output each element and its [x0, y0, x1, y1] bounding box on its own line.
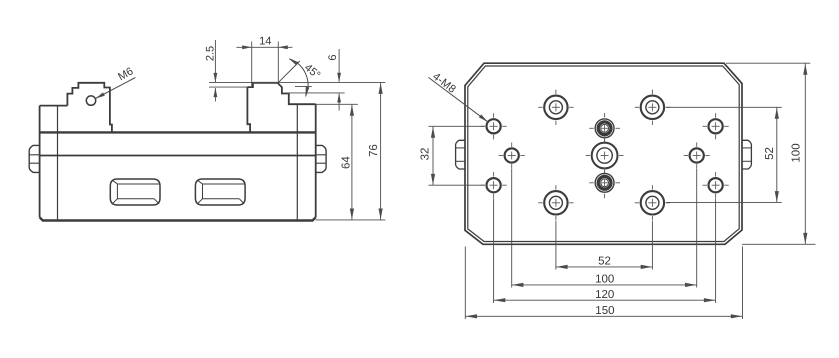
counterbored hole top-right [641, 96, 664, 119]
notch level extension line right [295, 85, 312, 87]
dimension 100 bottom [512, 284, 697, 286]
dimension 52 bottom [556, 266, 653, 268]
dimension 2.5 extension lines [209, 81, 253, 83]
dimension 100 right [804, 64, 806, 245]
counterbored hole top-left [544, 96, 567, 119]
dimension 120 bottom [494, 299, 716, 301]
front view: fixed jaw stepped profile [67, 83, 112, 133]
svg-text:4-M8: 4-M8 [430, 71, 458, 96]
leader 4-M8 [428, 77, 487, 121]
svg-text:100: 100 [790, 143, 802, 162]
angle 45 arc [289, 59, 308, 97]
top view: plate outer outline with corner chamfers [465, 63, 742, 244]
front view: movable jaw profile [247, 83, 288, 104]
M8 hole right-top [709, 119, 723, 133]
hole left-middle [505, 148, 519, 162]
dimension 52 right extension lines [666, 106, 782, 108]
top view: plate inner chamfer line [468, 66, 739, 242]
bottom dims extension lines [555, 221, 557, 270]
dimension 100 right extension lines [726, 62, 810, 64]
svg-text:14: 14 [259, 36, 271, 48]
front view: vise body outline [39, 106, 41, 218]
front view: M6 tapped hole in fixed jaw [86, 96, 95, 105]
counterbored hole bottom-left [544, 191, 567, 214]
top view: screw hex end right [742, 140, 751, 169]
extension line body bottom [316, 219, 386, 221]
svg-text:64: 64 [340, 156, 352, 169]
dimension 14 [236, 46, 292, 48]
front view: lead-screw hex end right [316, 145, 326, 172]
extension line jaw top [253, 81, 385, 83]
svg-text:2.5: 2.5 [204, 46, 216, 61]
svg-text:76: 76 [368, 144, 380, 157]
svg-text:120: 120 [595, 289, 614, 301]
front view: T-slot right [195, 179, 245, 205]
dimension 32 [432, 127, 434, 186]
dimension 32 extension lines [429, 125, 485, 127]
dimension 64 [351, 105, 353, 220]
svg-text:100: 100 [595, 274, 614, 286]
M8 hole left-bottom [487, 178, 501, 192]
dimension 6 extension line [285, 92, 345, 94]
extension line cap top [316, 103, 358, 105]
dimension 76 [380, 83, 382, 220]
counterbored hole bottom-right [641, 191, 664, 214]
center screw top [595, 119, 614, 138]
svg-text:52: 52 [764, 147, 776, 160]
center bore middle [592, 143, 618, 169]
M8 hole right-bottom [709, 178, 723, 192]
top view: screw hex end left [456, 140, 465, 169]
svg-text:150: 150 [595, 305, 614, 317]
hole right-middle [690, 148, 704, 162]
angle 45 reference line [278, 61, 300, 83]
svg-text:6: 6 [327, 54, 339, 60]
svg-text:32: 32 [420, 148, 432, 161]
dimension 14 extension lines [251, 42, 253, 88]
front view: lead-screw hex end left [29, 145, 39, 172]
center screw bottom [595, 173, 614, 192]
svg-text:52: 52 [598, 256, 611, 268]
dimension 2.5 [214, 40, 216, 82]
dimension 150 bottom [465, 315, 742, 317]
M8 hole left-top [487, 119, 501, 133]
svg-text:M6: M6 [116, 65, 135, 83]
dimension 6 [338, 49, 340, 82]
dimension 52 right [776, 108, 778, 203]
svg-text:45°: 45° [302, 62, 322, 82]
front view: T-slot left [110, 179, 160, 205]
leader M6 [96, 78, 136, 99]
